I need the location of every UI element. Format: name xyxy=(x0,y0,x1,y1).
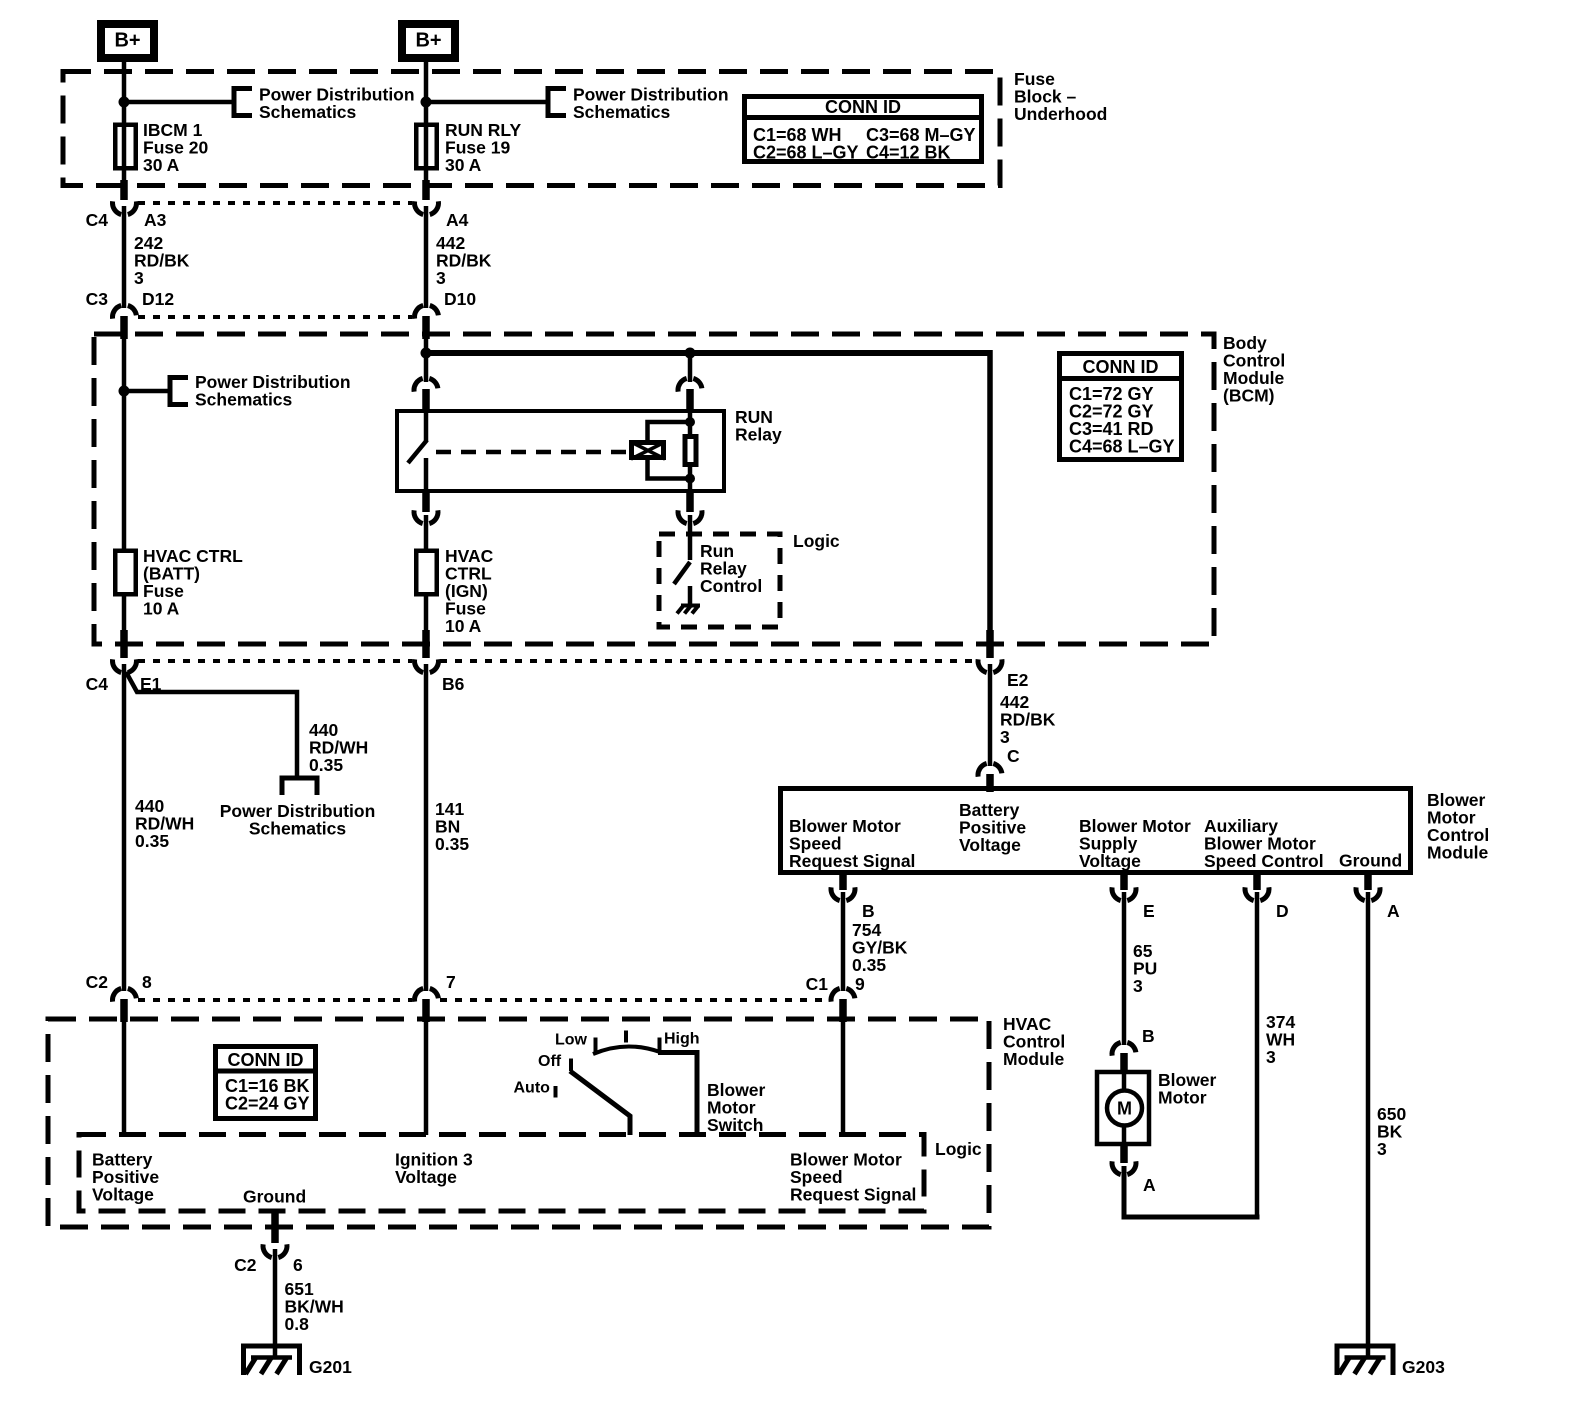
connector socket arc E2 xyxy=(978,659,1002,672)
svg-text:Module: Module xyxy=(1427,843,1489,863)
wire 442 RD/BK to blower motor control module xyxy=(988,664,993,766)
Blower Motor Switch label xyxy=(707,1080,766,1135)
connector row 3 dotted harness line (left) xyxy=(138,659,412,663)
svg-text:Module: Module xyxy=(1003,1049,1065,1069)
switch wiper blade xyxy=(570,1071,630,1135)
wire 2: BCM entry to relay xyxy=(424,339,429,382)
wire 754 GY/BK xyxy=(841,892,846,991)
connector pin stub below relay (right) xyxy=(686,492,694,512)
svg-text:CONN ID: CONN ID xyxy=(825,97,901,117)
connector socket arc D10 xyxy=(415,305,439,318)
wire 242 RD/BK 3 (segment) xyxy=(122,206,127,308)
connector pin stub E (BMCM) xyxy=(1120,874,1128,890)
connector pin stub into relay (left) xyxy=(422,389,430,410)
svg-text:G201: G201 xyxy=(309,1357,352,1377)
svg-text:10 A: 10 A xyxy=(445,616,482,636)
svg-text:D10: D10 xyxy=(444,289,476,309)
wire through resistor (bottom) xyxy=(688,465,693,493)
svg-text:0.35: 0.35 xyxy=(435,834,469,854)
svg-text:CONN ID: CONN ID xyxy=(1083,357,1159,377)
HVAC CTRL (BATT) fuse xyxy=(115,551,136,595)
svg-text:3: 3 xyxy=(1133,976,1143,996)
svg-text:Motor: Motor xyxy=(1158,1088,1207,1108)
wire label 440 RD/WH 0.35 xyxy=(135,796,194,851)
connector socket arc below relay (left) xyxy=(414,510,438,523)
connector pin stub A (BMCM) xyxy=(1364,874,1372,890)
connector pin stub B (blower motor) xyxy=(1120,1053,1128,1072)
connector pin stub C4/E1 xyxy=(120,630,128,658)
Power Distribution Schematics label #4 xyxy=(220,801,376,839)
wire label 65 PU 3 xyxy=(1133,941,1157,996)
wire label 374 WH 3 xyxy=(1266,1012,1295,1067)
junction node at wire 2 / bus xyxy=(421,348,432,359)
svg-text:C3: C3 xyxy=(86,289,109,309)
switch tick Low xyxy=(594,1038,598,1053)
svg-text:10 A: 10 A xyxy=(143,599,180,619)
HVAC pin label: Blower Motor Speed Request Signal xyxy=(790,1150,916,1205)
Blower Motor Control Module box xyxy=(781,789,1411,873)
wire label 242 RD/BK 3 xyxy=(134,233,190,288)
svg-text:0.35: 0.35 xyxy=(852,955,886,975)
connector socket arc C4/E1 xyxy=(113,659,137,672)
RUN Relay label xyxy=(735,407,782,445)
svg-text:C4: C4 xyxy=(86,210,109,230)
relay internal resistor element xyxy=(685,437,696,465)
svg-text:B6: B6 xyxy=(442,674,465,694)
HVAC Control Module dashed box xyxy=(48,1019,989,1227)
CONN ID table (BCM) xyxy=(1057,354,1184,460)
svg-text:Logic: Logic xyxy=(793,531,840,551)
svg-text:Speed Control: Speed Control xyxy=(1204,851,1324,871)
svg-text:C2=68 L–GY: C2=68 L–GY xyxy=(753,143,859,163)
svg-text:Control: Control xyxy=(700,576,762,596)
svg-text:Request Signal: Request Signal xyxy=(790,1185,916,1205)
relay coil loop wiring xyxy=(648,422,691,479)
CONN ID table (HVAC) xyxy=(213,1047,318,1119)
svg-text:D12: D12 xyxy=(142,289,174,309)
svg-text:E: E xyxy=(1143,901,1155,921)
svg-text:A4: A4 xyxy=(446,210,469,230)
junction node at relay coil / bus xyxy=(685,348,696,359)
bus wire from wire 2 to E2 drop xyxy=(423,350,990,356)
HVAC CTRL (BATT) fuse label xyxy=(143,546,243,619)
CONN ID table (fuse block) xyxy=(742,97,984,163)
connector socket arc below relay (right) xyxy=(678,510,702,523)
svg-text:30 A: 30 A xyxy=(445,155,482,175)
svg-text:CONN ID: CONN ID xyxy=(228,1050,304,1070)
svg-text:3: 3 xyxy=(1000,727,1010,747)
wire: tap to power distribution schematics #2 xyxy=(426,100,548,105)
connector socket arc E (BMCM) xyxy=(1112,887,1136,900)
battery feed symbol B+ #2 xyxy=(402,24,455,58)
ground wire into G203 xyxy=(1366,1346,1371,1358)
junction node coil top xyxy=(685,417,695,427)
connector row 1 dotted harness line xyxy=(138,201,412,205)
connector row 2 dotted harness line xyxy=(138,315,412,319)
svg-text:Relay: Relay xyxy=(735,425,782,445)
svg-text:Auto: Auto xyxy=(514,1080,551,1097)
Fuse Block - Underhood label xyxy=(1014,69,1107,124)
run relay control switch blade xyxy=(674,562,690,584)
connector pin stub B6 xyxy=(422,630,430,658)
BMCM pin label: Blower Motor Supply Voltage xyxy=(1079,816,1191,871)
svg-text:8: 8 xyxy=(142,972,152,992)
svg-text:Underhood: Underhood xyxy=(1014,104,1107,124)
svg-text:A: A xyxy=(1387,901,1400,921)
relay switch contact wire (top) xyxy=(424,409,429,441)
wire label 651 BK/WH 0.8 xyxy=(285,1279,344,1334)
connector socket arc C2/8 xyxy=(113,988,137,1001)
connector socket arc C4/A3 xyxy=(113,201,137,214)
connector socket arc B (blower motor) xyxy=(1112,1042,1136,1055)
connector pin stub C2/8 xyxy=(120,999,128,1022)
svg-text:0.8: 0.8 xyxy=(285,1314,310,1334)
wire: ignition voltage into HVAC xyxy=(424,1022,429,1135)
svg-text:B: B xyxy=(1142,1026,1155,1046)
connector socket arc C1/9 xyxy=(831,988,855,1001)
svg-text:Voltage: Voltage xyxy=(1079,851,1141,871)
Power Distribution Schematics label #3 xyxy=(195,372,351,410)
svg-text:M: M xyxy=(1117,1099,1132,1119)
Body Control Module label xyxy=(1223,333,1285,406)
svg-text:3: 3 xyxy=(134,268,144,288)
ground symbol G201 xyxy=(244,1346,300,1375)
svg-text:3: 3 xyxy=(436,268,446,288)
Run Relay Control logic dashed box xyxy=(659,534,780,627)
wire 1 inside BCM xyxy=(122,339,127,550)
svg-text:E2: E2 xyxy=(1007,670,1029,690)
connector socket arc C xyxy=(978,763,1002,776)
switch tick High xyxy=(658,1038,662,1052)
HVAC CTRL (IGN) fuse xyxy=(416,551,437,595)
connector socket arc A (blower motor) xyxy=(1112,1161,1136,1174)
svg-text:Schematics: Schematics xyxy=(195,390,293,410)
switch tick Auto xyxy=(554,1086,558,1098)
svg-text:A3: A3 xyxy=(144,210,167,230)
svg-text:C4: C4 xyxy=(86,674,109,694)
svg-text:G203: G203 xyxy=(1402,1357,1445,1377)
svg-text:D: D xyxy=(1276,901,1289,921)
connector socket arc B6 xyxy=(415,659,439,672)
BMCM pin label: Auxiliary Blower Motor Speed Control xyxy=(1204,816,1324,871)
connector pin stub C xyxy=(986,774,994,792)
connector pin stub B (BMCM) xyxy=(839,874,847,890)
HVAC Control Module label xyxy=(1003,1014,1065,1069)
BMCM pin label: Blower Motor Speed Request Signal xyxy=(789,816,915,871)
relay actuation dashed linkage xyxy=(436,450,627,455)
svg-text:Low: Low xyxy=(555,1032,588,1049)
svg-text:3: 3 xyxy=(1266,1047,1276,1067)
Fuse Block - Underhood dashed box xyxy=(63,72,1000,186)
switch tick Off xyxy=(569,1059,573,1072)
svg-text:Schematics: Schematics xyxy=(573,102,671,122)
Power Distribution Schematics label #2 xyxy=(573,85,729,123)
svg-text:B+: B+ xyxy=(114,30,140,52)
relay coil (crossed box) xyxy=(631,442,665,459)
wire: B+ #1 to fuse IBCM 1 xyxy=(122,58,127,182)
E2 drop wire xyxy=(987,350,993,632)
wire: relay to HVAC CTRL IGN fuse xyxy=(424,515,429,552)
connector pin stub D (BMCM) xyxy=(1253,874,1261,890)
wire label 754 GY/BK 0.35 xyxy=(852,920,908,975)
connector pin stub C4/A3 xyxy=(120,180,128,200)
connector socket arc C2/6 xyxy=(263,1244,287,1257)
BMCM pin label: Battery Positive Voltage xyxy=(959,800,1026,855)
junction node on wire 1 xyxy=(119,97,130,108)
run relay control ground symbol xyxy=(677,606,700,614)
switch dial arc xyxy=(593,1046,660,1054)
svg-text:Voltage: Voltage xyxy=(92,1185,154,1205)
HVAC pin label: Ignition 3 Voltage xyxy=(395,1150,473,1188)
fuse IBCM 1 Fuse 20 30A xyxy=(115,125,136,169)
connector pin stub ground (HVAC) xyxy=(271,1210,279,1243)
Blower Motor Control Module label xyxy=(1427,790,1489,863)
svg-text:Request Signal: Request Signal xyxy=(789,851,915,871)
wire relay coil feed xyxy=(688,353,693,382)
wire label 442 RD/BK 3 xyxy=(436,233,492,288)
svg-text:6: 6 xyxy=(293,1255,303,1275)
wire: motor A to aux speed control xyxy=(1124,1166,1260,1217)
wire: relay to run relay control xyxy=(688,515,693,560)
connector pin stub D12 xyxy=(120,316,128,339)
wire 650 BK 3 to G203 xyxy=(1366,892,1371,1346)
wire through resistor (top) xyxy=(688,409,693,436)
wire into motor xyxy=(1122,1070,1127,1092)
motor circle M xyxy=(1107,1091,1142,1126)
connector socket arc A (BMCM) xyxy=(1356,887,1380,900)
connector pin stub 7 xyxy=(422,999,430,1022)
connector socket arc D (BMCM) xyxy=(1245,887,1269,900)
wire out of motor xyxy=(1122,1124,1127,1146)
svg-text:3: 3 xyxy=(1377,1139,1387,1159)
svg-text:High: High xyxy=(664,1031,700,1048)
relay switch blade xyxy=(408,440,427,463)
connector socket arc B (BMCM) xyxy=(831,887,855,900)
Body Control Module dashed box xyxy=(94,334,1214,644)
svg-text:(BCM): (BCM) xyxy=(1223,386,1275,406)
run relay control contact xyxy=(688,586,693,605)
svg-text:Off: Off xyxy=(538,1053,562,1070)
HVAC pin label: Battery Positive Voltage xyxy=(92,1150,159,1205)
wire label 440 RD/WH 0.35 (branch) xyxy=(309,720,368,775)
connector socket arc 7 xyxy=(415,988,439,1001)
HVAC logic dashed box xyxy=(79,1135,924,1212)
Blower Motor label xyxy=(1158,1070,1217,1108)
fuse RUN RLY label xyxy=(445,120,521,175)
connector socket arc C3/D12 xyxy=(113,305,137,318)
relay switch contact wire (bottom) xyxy=(424,458,429,493)
wire: C1 to HVAC logic xyxy=(841,1022,846,1135)
svg-text:C4=12 BK: C4=12 BK xyxy=(866,143,951,163)
svg-text:Voltage: Voltage xyxy=(959,835,1021,855)
svg-text:C4=68 L–GY: C4=68 L–GY xyxy=(1069,437,1175,457)
ground symbol G203 xyxy=(1337,1346,1393,1375)
wire label 141 BN 0.35 xyxy=(435,799,469,854)
svg-text:Schematics: Schematics xyxy=(249,819,347,839)
svg-text:C1: C1 xyxy=(806,974,829,994)
junction node on wire 2 xyxy=(421,97,432,108)
svg-text:Ground: Ground xyxy=(243,1187,306,1207)
svg-text:C2: C2 xyxy=(86,972,109,992)
connector row 3 dotted harness line (right) xyxy=(440,659,976,663)
wire 65 PU 3 xyxy=(1122,892,1127,1045)
off-page bracket symbol #1 xyxy=(234,89,252,116)
off-page bracket symbol #3 xyxy=(170,378,188,405)
svg-text:Voltage: Voltage xyxy=(395,1167,457,1187)
off-page staple symbol (power distribution) xyxy=(282,778,317,795)
wire label 442 RD/BK 3 (E2) xyxy=(1000,692,1056,747)
svg-text:9: 9 xyxy=(855,974,865,994)
connector row 4 dotted harness line (right) xyxy=(440,998,829,1002)
switch output wire xyxy=(658,1053,697,1136)
svg-text:Ground: Ground xyxy=(1339,851,1402,871)
svg-text:C2: C2 xyxy=(234,1255,257,1275)
wire 440 RD/WH to HVAC xyxy=(122,664,127,991)
connector pin stub below relay (left) xyxy=(422,492,430,512)
junction node BCM wire 1 xyxy=(119,386,130,397)
connector socket arc into relay (left) xyxy=(414,378,438,391)
junction node coil bottom xyxy=(685,474,695,484)
Power Distribution Schematics label #1 xyxy=(259,85,415,123)
connector pin stub A4 xyxy=(422,180,430,200)
wire: tap to power distribution schematics #1 xyxy=(124,100,234,105)
wire 141 BN to HVAC xyxy=(424,664,429,991)
off-page bracket symbol #2 xyxy=(548,89,566,116)
connector pin stub A (blower motor) xyxy=(1120,1145,1128,1163)
Blower Motor box xyxy=(1097,1072,1149,1144)
svg-text:7: 7 xyxy=(446,972,456,992)
wire 374 WH 3 xyxy=(1255,892,1260,1220)
svg-text:Logic: Logic xyxy=(935,1139,982,1159)
svg-text:Schematics: Schematics xyxy=(259,102,357,122)
svg-text:30 A: 30 A xyxy=(143,155,180,175)
connector socket arc A4 xyxy=(415,201,439,214)
connector row 4 dotted harness line (left) xyxy=(138,998,412,1002)
wire: B+ #2 to fuse RUN RLY xyxy=(424,58,429,182)
wire: tap to power distribution schematics #3 xyxy=(124,389,170,394)
fuse RUN RLY Fuse 19 30A xyxy=(416,125,437,169)
branch wire to power distribution schematics xyxy=(126,672,297,778)
svg-text:0.35: 0.35 xyxy=(135,831,169,851)
svg-text:C: C xyxy=(1007,746,1020,766)
svg-text:A: A xyxy=(1143,1175,1156,1195)
wire: IGN fuse to BCM edge xyxy=(424,595,429,632)
svg-text:C2=24 GY: C2=24 GY xyxy=(225,1094,310,1114)
svg-text:B+: B+ xyxy=(415,30,441,52)
connector pin stub D10 xyxy=(422,316,430,339)
wire label 650 BK 3 xyxy=(1377,1104,1406,1159)
wire 442 RD/BK 3 (segment) xyxy=(424,206,429,308)
connector pin stub C1/9 xyxy=(839,999,847,1022)
connector pin stub E2 xyxy=(986,630,994,658)
wire 651 BK/WH to G201 xyxy=(273,1249,278,1358)
RUN Relay box xyxy=(397,411,724,491)
svg-text:B: B xyxy=(862,901,875,921)
fuse IBCM 1 label xyxy=(143,120,208,175)
connector pin stub into relay (right) xyxy=(686,389,694,410)
wire: BATT fuse to BCM edge xyxy=(122,595,127,632)
connector socket arc into relay (right) xyxy=(678,378,702,391)
switch tick mid xyxy=(624,1031,628,1043)
svg-text:0.35: 0.35 xyxy=(309,755,343,775)
HVAC CTRL (IGN) fuse label xyxy=(445,546,494,636)
Run Relay Control label xyxy=(700,541,762,596)
wire: battery voltage into HVAC xyxy=(122,1022,127,1135)
battery feed symbol B+ #1 xyxy=(101,24,154,58)
